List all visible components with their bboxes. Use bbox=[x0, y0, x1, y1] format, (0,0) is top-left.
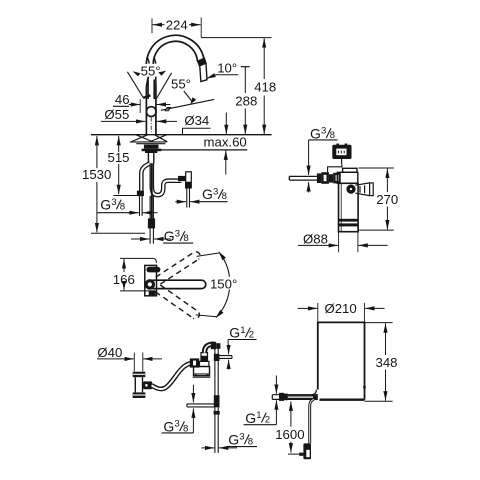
counter bottom line (max60) bbox=[144, 149, 248, 151]
faucet body left edge bbox=[145, 87, 147, 135]
left thin pipe bbox=[140, 196, 143, 216]
right stub (G1/2) bbox=[218, 356, 232, 359]
svg-text:3: 3 bbox=[239, 432, 244, 443]
trap side outlet bbox=[143, 381, 152, 389]
dia88 dim line + arrows bbox=[298, 244, 330, 246]
svg-text:3: 3 bbox=[111, 197, 116, 208]
underline of 46 bbox=[113, 105, 129, 107]
G3/8 check valve arrows bbox=[175, 201, 186, 203]
46 left arrow bbox=[129, 104, 140, 106]
270 top termination bbox=[359, 167, 394, 169]
dashed spout lower bbox=[156, 285, 200, 319]
svg-text:G: G bbox=[245, 410, 256, 426]
lever top view bbox=[146, 267, 160, 273]
515 termination line bbox=[114, 195, 141, 197]
515 dimension bbox=[118, 136, 120, 152]
svg-text:max.60: max.60 bbox=[204, 135, 247, 150]
central pipe connector bbox=[148, 218, 155, 228]
svg-text:G: G bbox=[202, 186, 213, 202]
inlet pipe to boiler bbox=[272, 395, 318, 400]
plug bbox=[303, 443, 311, 459]
288 lower segment bbox=[244, 109, 246, 135]
pipe T fitting top bbox=[214, 354, 220, 361]
166 bottom extension bbox=[120, 290, 155, 292]
spout outlet tube bbox=[200, 64, 207, 82]
valve block bbox=[194, 367, 210, 376]
shank bbox=[148, 153, 153, 163]
svg-text:8: 8 bbox=[222, 191, 227, 202]
escutcheon hatch lines bbox=[131, 135, 148, 142]
dia40 arrows bbox=[97, 358, 134, 360]
svg-text:270: 270 bbox=[376, 192, 398, 207]
svg-text:G: G bbox=[310, 125, 321, 141]
arc-to-body left joint bbox=[146, 76, 148, 87]
body centerline bbox=[150, 118, 152, 134]
swivel ring bbox=[146, 281, 153, 288]
valve thin pipe bbox=[187, 189, 190, 208]
mounting nut bbox=[144, 145, 159, 149]
escutcheon lower line bbox=[136, 143, 165, 145]
svg-text:55°: 55° bbox=[141, 64, 161, 79]
G3/8 label bottom-middle bbox=[163, 228, 193, 244]
svg-text:3: 3 bbox=[321, 126, 326, 137]
trap top flange bbox=[133, 372, 146, 378]
svg-text:2: 2 bbox=[249, 330, 254, 341]
svg-text:46: 46 bbox=[115, 92, 130, 107]
filter cartridge cylinder bbox=[339, 183, 359, 231]
svg-text:3: 3 bbox=[174, 419, 179, 430]
hose end hex fitting bbox=[190, 358, 199, 367]
svg-text:G: G bbox=[164, 228, 175, 244]
max60 bottom arrow bbox=[225, 150, 227, 174]
filter head bbox=[337, 172, 358, 183]
10deg leader arrow bbox=[206, 75, 216, 79]
locknut bbox=[145, 149, 157, 153]
1600 termination line bbox=[288, 453, 299, 455]
G3/8 bottom-middle arrows bbox=[131, 238, 150, 240]
label 150deg halo bbox=[210, 277, 238, 290]
svg-text:3: 3 bbox=[175, 228, 180, 239]
valve knob bbox=[346, 185, 355, 194]
top reference line for 418 bbox=[201, 37, 271, 39]
spout bar (solid position) bbox=[149, 280, 206, 288]
224 left extension bbox=[151, 18, 153, 33]
dia210 arrows bbox=[298, 307, 318, 309]
348 top termination bbox=[365, 322, 393, 324]
spout arc inner bbox=[153, 41, 197, 73]
pipe lower fitting band bbox=[214, 411, 220, 415]
ball joint circle bbox=[146, 107, 156, 117]
trap bottom flange bbox=[133, 392, 146, 398]
display unit bbox=[336, 144, 339, 146]
block base line bbox=[193, 376, 211, 378]
svg-text:3: 3 bbox=[213, 186, 218, 197]
lever swung ray bbox=[161, 99, 214, 110]
label 55deg no1 halo bbox=[139, 64, 163, 77]
trap tube bbox=[135, 377, 142, 392]
1530 dimension bbox=[96, 136, 98, 168]
lever right line bbox=[153, 80, 155, 100]
G3/8 label (trap lower-left) bbox=[162, 418, 194, 434]
boiler bottom edge bbox=[320, 399, 365, 401]
display stem + wire bbox=[341, 159, 343, 164]
right edge small arrow bbox=[363, 386, 366, 391]
G1/2 label (boiler) bbox=[244, 410, 277, 426]
G1/2 arrows at boiler pipe bbox=[275, 376, 277, 394]
svg-text:G: G bbox=[100, 197, 111, 213]
arc arrowhead top bbox=[218, 251, 226, 260]
svg-text:55°: 55° bbox=[171, 77, 191, 92]
224 right extension bbox=[200, 17, 202, 37]
svg-text:1530: 1530 bbox=[82, 167, 111, 182]
stack above block bbox=[200, 361, 209, 366]
svg-text:1: 1 bbox=[240, 325, 245, 336]
G3/8 bottom arrows bbox=[202, 447, 215, 449]
55no2 leader bbox=[184, 91, 192, 102]
countertop line bbox=[91, 134, 272, 136]
stub T fitting bbox=[214, 402, 220, 407]
middle hose with trap curve bbox=[152, 163, 182, 195]
G3/8 left arrows bbox=[128, 212, 139, 214]
pipe mid fitting bbox=[214, 395, 220, 402]
thick pipe fill bbox=[288, 395, 318, 399]
svg-text:10°: 10° bbox=[217, 61, 237, 76]
cartridge bands bbox=[339, 219, 359, 222]
svg-text:G: G bbox=[229, 325, 240, 341]
swivel arc 150deg bbox=[217, 253, 230, 317]
valve handle cone bbox=[355, 183, 369, 196]
348 bottom termination bbox=[365, 400, 393, 402]
270 bottom termination bbox=[358, 229, 394, 231]
55no2 leader arrowhead bbox=[190, 97, 196, 104]
dia40 extension lines bbox=[134, 353, 143, 372]
spout arc outer bbox=[146, 35, 203, 75]
dia55 right arrow bbox=[157, 120, 177, 122]
svg-text:G: G bbox=[163, 418, 174, 434]
bottom block bbox=[149, 290, 156, 296]
dia55 dimension line + arrow bbox=[101, 120, 145, 122]
svg-text:Ø88: Ø88 bbox=[303, 232, 328, 247]
power cable bbox=[310, 399, 314, 443]
lever tip bar bbox=[143, 95, 150, 97]
55deg left ray bbox=[127, 72, 143, 99]
svg-text:Ø55: Ø55 bbox=[104, 107, 129, 122]
body outline top view bbox=[145, 265, 157, 295]
svg-text:Ø210: Ø210 bbox=[324, 301, 356, 316]
central pipe thin walls bbox=[150, 196, 153, 244]
elbow-to-pipe fitting bbox=[211, 342, 216, 349]
inlet fittings bbox=[317, 173, 321, 183]
348 dimension bbox=[385, 323, 387, 355]
left supply hose bbox=[141, 163, 150, 191]
svg-text:1600: 1600 bbox=[275, 427, 304, 442]
filter head cap bbox=[343, 168, 357, 172]
boiler body bbox=[318, 322, 365, 399]
svg-text:G: G bbox=[228, 431, 239, 447]
svg-text:8: 8 bbox=[183, 233, 188, 244]
46 right arrow bbox=[157, 104, 171, 106]
G1/2 label (trap) bbox=[228, 325, 257, 345]
escutcheon bottom line bbox=[130, 141, 167, 143]
svg-text:166: 166 bbox=[113, 272, 135, 287]
1530 termination line bbox=[91, 232, 145, 234]
svg-text:8: 8 bbox=[248, 436, 253, 447]
small open arrowhead on swung ray bbox=[165, 108, 170, 111]
lever (up position) left line bbox=[147, 80, 149, 100]
svg-text:8: 8 bbox=[120, 202, 125, 213]
G3/8 up arrow below pipe bbox=[308, 182, 310, 193]
lift rod dark core bbox=[151, 163, 153, 218]
dashed spout upper bbox=[156, 252, 200, 284]
svg-text:2: 2 bbox=[265, 415, 270, 426]
arc inner-to-body joint bbox=[155, 73, 157, 85]
elbow bbox=[205, 344, 215, 353]
faucet body right edge bbox=[155, 85, 157, 135]
dia210 extension lines bbox=[318, 303, 365, 322]
G3/8 label (filter) bbox=[309, 125, 338, 141]
G3/8 label left bbox=[97, 197, 131, 213]
inlet pipe bbox=[289, 176, 317, 180]
hose trap to valve block bbox=[152, 363, 192, 389]
1600 dimension bbox=[290, 401, 292, 426]
svg-text:Ø34: Ø34 bbox=[184, 113, 209, 128]
G3/8 label mid-right (check valve) bbox=[200, 186, 228, 202]
max60 top arrow bbox=[225, 113, 227, 135]
55deg right ray bbox=[156, 73, 171, 99]
G1/2 arrows on stub bbox=[228, 345, 230, 355]
check valve body bbox=[186, 172, 192, 183]
right vertical pipe bbox=[215, 349, 218, 453]
pipe elbow inside boiler corner bbox=[312, 390, 317, 395]
svg-text:150°: 150° bbox=[210, 276, 237, 291]
pipe nuts bbox=[279, 393, 284, 401]
svg-text:1: 1 bbox=[256, 410, 261, 421]
arc arrowhead bottom bbox=[216, 310, 224, 318]
thin leaders to arc ends bbox=[196, 253, 220, 317]
288 top T-bar bbox=[241, 66, 250, 68]
46 extension line bbox=[139, 99, 141, 113]
55deg left arrowhead bbox=[133, 71, 141, 76]
G3/8 leader arrow down to pipe bbox=[308, 140, 310, 175]
418 dimension bbox=[263, 38, 265, 79]
166 top extension bbox=[120, 258, 157, 263]
lever top marks above 55-label bbox=[148, 58, 156, 64]
dia34 underline + leader bbox=[183, 128, 211, 135]
G3/8 arrows on left stub bbox=[192, 385, 194, 403]
svg-text:288: 288 bbox=[235, 93, 257, 108]
224 dim arrows bbox=[153, 24, 165, 26]
left stub (G3/8) bbox=[187, 404, 215, 407]
svg-text:224: 224 bbox=[166, 17, 188, 32]
270 dimension bbox=[386, 169, 388, 192]
dia88 extension lines bbox=[339, 232, 358, 253]
svg-text:418: 418 bbox=[254, 80, 276, 95]
spout joint band bbox=[197, 57, 207, 66]
check valve nut bbox=[185, 182, 192, 188]
svg-text:348: 348 bbox=[375, 355, 397, 370]
nut wings bbox=[142, 149, 145, 152]
55deg right arrowhead bbox=[158, 71, 166, 76]
10deg underline bbox=[216, 74, 238, 76]
svg-text:515: 515 bbox=[107, 150, 129, 165]
hose end fitting at check valve bbox=[178, 176, 186, 181]
166 dimension arrows bbox=[123, 259, 125, 272]
svg-text:Ø40: Ø40 bbox=[97, 345, 122, 360]
left hose connector bbox=[137, 191, 144, 197]
G3/8 label (trap bottom-right) bbox=[227, 431, 257, 447]
